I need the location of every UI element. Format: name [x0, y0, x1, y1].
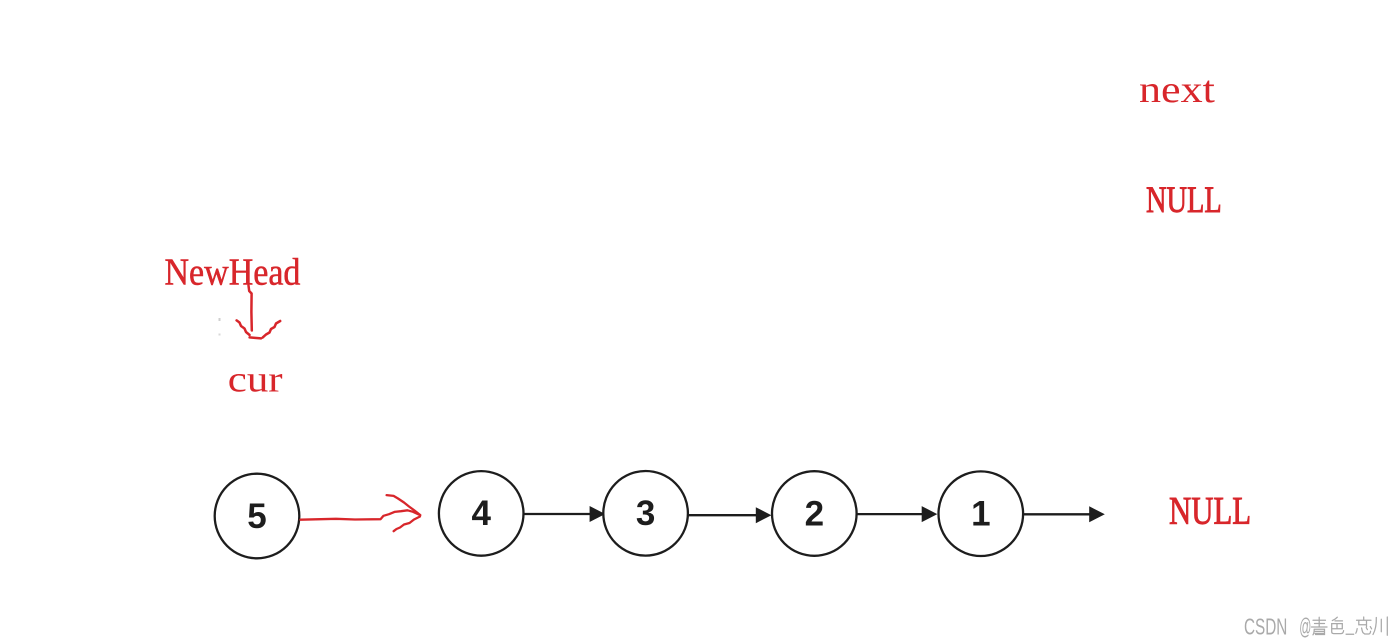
node circle 5: [215, 474, 300, 559]
faint speck 2: [219, 334, 221, 336]
node circle 3: [603, 471, 688, 556]
node circle 2: [772, 471, 857, 556]
watermark underscore: [1346, 634, 1355, 635]
svg-text:next: next: [1139, 68, 1215, 110]
watermark hanzi qing: [1312, 617, 1328, 635]
svg-text:@: @: [1299, 613, 1311, 639]
svg-text:4: 4: [471, 494, 491, 533]
faint speck 1: [219, 318, 221, 321]
svg-text:2: 2: [805, 494, 824, 533]
svg-text:NewHead: NewHead: [165, 251, 301, 293]
watermark hanzi wang: [1356, 617, 1372, 634]
svg-text:NULL: NULL: [1169, 489, 1251, 532]
arrow 4 to 3: [524, 506, 606, 522]
hand-drawn red down arrow from NewHead to cur: [237, 286, 281, 339]
node circle 1: [939, 471, 1024, 556]
watermark hanzi se: [1332, 617, 1344, 633]
svg-text:1: 1: [971, 495, 990, 534]
arrow 2 to 1: [857, 506, 938, 522]
arrow 3 to 2: [688, 507, 771, 523]
watermark hanzi chuan: [1373, 617, 1387, 635]
svg-text:cur: cur: [228, 358, 283, 400]
svg-text:CSDN: CSDN: [1244, 614, 1287, 640]
node circle 4: [439, 471, 524, 556]
svg-text:3: 3: [636, 494, 655, 533]
svg-text:NULL: NULL: [1146, 180, 1222, 220]
hand-drawn red arrow from node 5 to node 4: [301, 495, 421, 531]
svg-text:5: 5: [247, 497, 266, 536]
arrow 1 to NULL: [1024, 506, 1105, 522]
